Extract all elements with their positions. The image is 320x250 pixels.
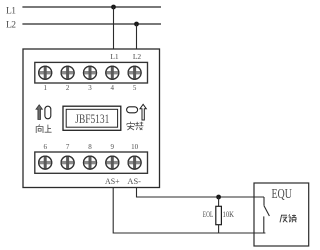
- terminal 10: [128, 156, 142, 170]
- terminal 3: [83, 66, 97, 80]
- svg-text:5: 5: [133, 84, 137, 92]
- resistor EOL 10K body: [216, 206, 222, 224]
- svg-text:6: 6: [43, 143, 47, 151]
- wire AS+ down and right to switch: [113, 188, 265, 234]
- label 向上: [36, 124, 51, 133]
- svg-text:L1: L1: [6, 7, 16, 17]
- label 安装: [127, 122, 143, 130]
- svg-text:JBF5131: JBF5131: [75, 111, 109, 126]
- resistor EOL bottom lead: [218, 225, 220, 233]
- svg-text:4: 4: [111, 84, 115, 92]
- svg-text:7: 7: [66, 143, 70, 151]
- svg-text:L2: L2: [133, 52, 142, 61]
- svg-text:10K: 10K: [223, 210, 235, 219]
- svg-text:L2: L2: [6, 21, 16, 31]
- terminal strip top (terminals 1-5): [35, 62, 148, 83]
- terminal 4: [105, 66, 119, 80]
- switch blade (open): [264, 206, 269, 216]
- terminal 5: [128, 66, 142, 80]
- svg-text:1: 1: [43, 84, 47, 92]
- wire L1 bus: [22, 6, 161, 8]
- device EQU box: [254, 183, 309, 246]
- module JBF5131 outline: [23, 49, 160, 188]
- orientation icon: filled up arrow: [36, 105, 42, 120]
- terminal 6: [38, 156, 52, 170]
- svg-text:L1: L1: [110, 52, 119, 61]
- terminal 7: [61, 156, 75, 170]
- svg-text:10: 10: [131, 143, 139, 151]
- switch bottom contact: [263, 216, 265, 233]
- svg-text:9: 9: [111, 143, 115, 151]
- mounting icon: outline up arrow: [140, 104, 146, 120]
- svg-text:8: 8: [88, 143, 92, 151]
- label 反馈: [280, 214, 296, 222]
- svg-text:AS+: AS+: [105, 177, 120, 186]
- wire AS- down and right to switch: [137, 188, 265, 198]
- svg-text:AS-: AS-: [127, 177, 141, 186]
- svg-text:2: 2: [66, 84, 70, 92]
- display window inner: [66, 109, 117, 127]
- mounting icon: horizontal slot: [127, 107, 138, 113]
- junction dot on L1: [111, 5, 116, 10]
- terminal 1: [38, 66, 52, 80]
- terminal strip bottom (terminals 6-10): [35, 152, 148, 173]
- svg-text:EOL: EOL: [203, 210, 214, 219]
- wire L2 drop to terminal 5: [136, 24, 138, 49]
- wire L1 drop to terminal 4: [113, 7, 115, 49]
- switch top contact: [263, 197, 265, 206]
- orientation icon: vertical slot: [45, 106, 51, 119]
- svg-text:3: 3: [88, 84, 92, 92]
- terminal 9: [105, 156, 119, 170]
- display window outer: [63, 106, 121, 130]
- junction dot at EOL resistor top: [216, 195, 221, 200]
- resistor EOL top lead: [218, 197, 220, 206]
- junction dot on L2: [134, 22, 139, 27]
- svg-text:EQU: EQU: [271, 187, 292, 202]
- terminal 2: [61, 66, 75, 80]
- wire L2 bus: [22, 23, 161, 25]
- terminal 8: [83, 156, 97, 170]
